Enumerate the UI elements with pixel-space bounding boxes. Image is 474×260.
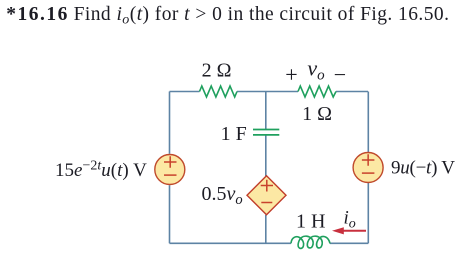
svg-text:+: + [285, 62, 297, 87]
svg-text:1 F: 1 F [221, 123, 247, 145]
svg-text:io: io [344, 208, 356, 232]
svg-text:vo: vo [307, 55, 325, 83]
svg-text:−: − [334, 62, 346, 87]
svg-text:15e−2tu(t) V: 15e−2tu(t) V [55, 159, 147, 182]
svg-text:0.5vo: 0.5vo [202, 183, 243, 208]
svg-text:1 Ω: 1 Ω [302, 103, 332, 125]
svg-text:9u(−t) V: 9u(−t) V [391, 157, 455, 178]
svg-text:1 H: 1 H [296, 211, 325, 233]
svg-text:*16.16Find io(t) for t > 0 in: *16.16Find io(t) for t > 0 in the circui… [6, 4, 449, 28]
svg-text:2 Ω: 2 Ω [202, 60, 232, 82]
